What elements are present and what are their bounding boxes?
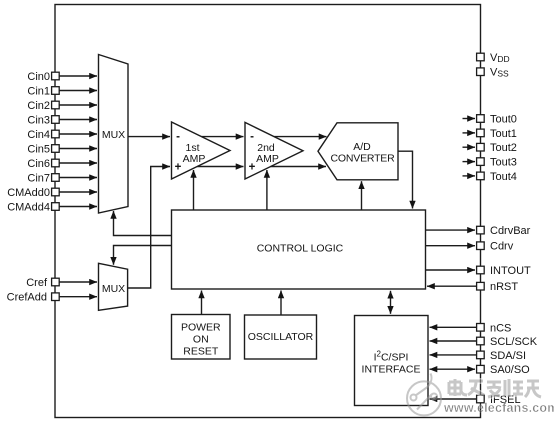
svg-text:+: + bbox=[249, 162, 256, 174]
wire Cin7 to MUX bbox=[60, 177, 98, 179]
watermark elecfans logo and text bbox=[407, 374, 554, 416]
wire control logic select to MUX1 bottom bbox=[114, 211, 172, 236]
svg-text:CrefAdd: CrefAdd bbox=[7, 292, 47, 304]
block I2C/SPI INTERFACE bbox=[355, 316, 429, 406]
pin CMAdd0 bbox=[52, 188, 60, 196]
svg-text:MUX: MUX bbox=[102, 129, 125, 141]
svg-text:Tout3: Tout3 bbox=[490, 157, 517, 169]
pin Tout0 bbox=[477, 115, 485, 123]
pin IFSEL bbox=[477, 395, 485, 403]
pin nCS bbox=[477, 324, 485, 332]
wire A/D output down into control logic bbox=[398, 151, 413, 208]
pin Cdrv bbox=[477, 242, 485, 250]
wire control logic to A/D bottom bbox=[361, 181, 363, 210]
wire control logic to interface bidirectional bbox=[390, 291, 392, 314]
wire control logic gain to 2nd AMP bbox=[266, 170, 268, 210]
pin Tout1 bbox=[477, 129, 485, 137]
wire Cref to MUX2 bbox=[60, 281, 98, 283]
svg-text:Tout2: Tout2 bbox=[490, 142, 517, 154]
wire Cin6 to MUX bbox=[60, 162, 98, 164]
svg-text:Cin7: Cin7 bbox=[27, 173, 50, 185]
svg-text:-: - bbox=[250, 131, 254, 143]
svg-text:AMP: AMP bbox=[183, 153, 206, 165]
pin Tout2 bbox=[477, 143, 485, 151]
svg-text:Cin0: Cin0 bbox=[27, 71, 50, 83]
pin Cin5 bbox=[52, 145, 60, 153]
wire Tout1 stub bbox=[463, 132, 476, 134]
block MUX1 input multiplexer bbox=[99, 55, 129, 214]
svg-text:ON: ON bbox=[193, 334, 209, 346]
watermark logo circle bbox=[407, 374, 441, 416]
svg-text:SA0/SO: SA0/SO bbox=[490, 364, 530, 376]
pin Tout3 bbox=[477, 158, 485, 166]
pin VSS bbox=[477, 68, 485, 76]
wire CrefAdd to MUX2 bbox=[60, 296, 98, 298]
wire Cin4 to MUX bbox=[60, 133, 98, 135]
svg-text:CMAdd0: CMAdd0 bbox=[7, 187, 50, 199]
svg-text:www.elecfans.com: www.elecfans.com bbox=[443, 401, 554, 415]
wire Tout0 stub bbox=[463, 118, 476, 120]
svg-text:nCS: nCS bbox=[490, 322, 511, 334]
wire SCL/SCK pin into interface bbox=[430, 340, 477, 342]
svg-text:I2C/SPI: I2C/SPI bbox=[374, 350, 409, 364]
svg-text:Cin2: Cin2 bbox=[27, 100, 50, 112]
wire Cin1 to MUX bbox=[60, 90, 98, 92]
svg-text:Cin1: Cin1 bbox=[27, 86, 50, 98]
svg-text:+: + bbox=[175, 162, 182, 174]
svg-text:POWER: POWER bbox=[181, 322, 221, 334]
svg-text:Cref: Cref bbox=[26, 277, 48, 289]
svg-text:Tout1: Tout1 bbox=[490, 128, 517, 140]
svg-text:Cin3: Cin3 bbox=[27, 115, 50, 127]
right pin labels bbox=[490, 52, 538, 406]
pin Tout4 bbox=[477, 172, 485, 180]
wire Cin0 to MUX bbox=[60, 75, 98, 77]
svg-text:-: - bbox=[176, 131, 180, 143]
pin SA0/SO bbox=[477, 365, 485, 373]
svg-text:CONVERTER: CONVERTER bbox=[331, 153, 396, 165]
svg-text:Tout0: Tout0 bbox=[490, 114, 517, 126]
pin Cin7 bbox=[52, 174, 60, 182]
block OSCILLATOR bbox=[245, 315, 317, 359]
block MUX2 reference multiplexer bbox=[99, 263, 128, 310]
pin Cin3 bbox=[52, 116, 60, 124]
wire control logic to Cdrv pin bbox=[426, 245, 476, 247]
pin SCL/SCK bbox=[477, 337, 485, 345]
wire IFSEL pin into interface bbox=[430, 398, 477, 400]
wire nCS pin into interface bbox=[430, 326, 477, 328]
watermark chinese text white halo bbox=[449, 379, 541, 397]
wire 1st AMP output to 2nd AMP minus input bbox=[202, 136, 244, 138]
pin Cin6 bbox=[52, 159, 60, 167]
svg-text:CONTROL LOGIC: CONTROL LOGIC bbox=[257, 243, 344, 255]
wire nRST pin into control logic bbox=[427, 285, 477, 287]
block A/D converter bbox=[318, 123, 398, 180]
svg-text:Tout4: Tout4 bbox=[490, 171, 517, 183]
wire Cin2 to MUX bbox=[60, 104, 98, 106]
pin Cin0 bbox=[52, 72, 60, 80]
pin CrefAdd bbox=[52, 293, 60, 301]
wire control logic to CdrvBar pin bbox=[426, 229, 476, 231]
block 2nd AMP op-amp bbox=[245, 122, 303, 179]
block POWER ON RESET bbox=[172, 315, 231, 360]
svg-text:Cin4: Cin4 bbox=[27, 129, 50, 141]
svg-text:nRST: nRST bbox=[490, 281, 518, 293]
wire SA0/SO bidirectional bbox=[430, 368, 476, 370]
pin Cin2 bbox=[52, 101, 60, 109]
pin Cref bbox=[52, 278, 60, 286]
pin Cin4 bbox=[52, 130, 60, 138]
left pin labels bbox=[7, 71, 50, 304]
watermark chinese text 电子发烧友 (approximated strokes) bbox=[449, 379, 541, 397]
wire control logic to INTOUT pin bbox=[426, 269, 476, 271]
svg-text:VDD: VDD bbox=[490, 52, 510, 64]
wire power on reset to control logic bbox=[201, 291, 203, 315]
pin CMAdd4 bbox=[52, 203, 60, 211]
amp input polarity signs bbox=[175, 131, 256, 174]
wire CMAdd0 to MUX bbox=[60, 191, 98, 193]
svg-text:CdrvBar: CdrvBar bbox=[490, 225, 531, 237]
wire 2nd AMP output to A/D upper input bbox=[274, 136, 326, 138]
svg-text:VSS: VSS bbox=[490, 67, 509, 79]
svg-text:INTERFACE: INTERFACE bbox=[362, 364, 421, 376]
chip outer border bbox=[55, 5, 481, 418]
svg-text:AMP: AMP bbox=[256, 153, 279, 165]
pin VDD bbox=[477, 53, 485, 61]
wire oscillator to control logic bbox=[280, 291, 282, 316]
pin CdrvBar bbox=[477, 226, 485, 234]
pin squares bbox=[52, 53, 485, 403]
wire MUX1 output to 1st AMP minus input bbox=[128, 136, 170, 138]
wire Cin5 to MUX bbox=[60, 148, 98, 150]
svg-text:RESET: RESET bbox=[183, 346, 219, 358]
svg-text:A/D: A/D bbox=[353, 141, 371, 153]
svg-text:OSCILLATOR: OSCILLATOR bbox=[248, 331, 314, 343]
wire control logic select to MUX2 top bbox=[114, 246, 172, 265]
block labels bbox=[102, 129, 421, 376]
wire Tout2 stub bbox=[463, 146, 476, 148]
svg-text:Cin5: Cin5 bbox=[27, 144, 50, 156]
pin Cin1 bbox=[52, 87, 60, 95]
wire Tout4 stub bbox=[463, 175, 476, 177]
pin INTOUT bbox=[477, 266, 485, 274]
wire Tout3 stub bbox=[463, 161, 476, 163]
wire 1st AMP output to 2nd AMP plus input bbox=[197, 166, 243, 168]
svg-text:MUX: MUX bbox=[102, 283, 125, 295]
wire control logic gain to 1st AMP bbox=[193, 170, 195, 210]
svg-text:Cdrv: Cdrv bbox=[490, 241, 514, 253]
block CONTROL LOGIC bbox=[172, 210, 426, 289]
svg-text:INTOUT: INTOUT bbox=[490, 265, 531, 277]
wire MUX2 output up to 1st AMP plus input bbox=[128, 167, 170, 289]
pin nRST bbox=[477, 282, 485, 290]
wire SDA/SI pin into interface bbox=[430, 354, 477, 356]
svg-text:SCL/SCK: SCL/SCK bbox=[490, 336, 538, 348]
svg-text:SDA/SI: SDA/SI bbox=[490, 350, 526, 362]
svg-text:CMAdd4: CMAdd4 bbox=[7, 202, 50, 214]
wire Cin3 to MUX bbox=[60, 119, 98, 121]
wire 2nd AMP output to A/D lower input bbox=[271, 166, 326, 168]
pin SDA/SI bbox=[477, 351, 485, 359]
svg-text:Cin6: Cin6 bbox=[27, 158, 50, 170]
block 1st AMP op-amp bbox=[172, 122, 231, 179]
wire CMAdd4 to MUX bbox=[60, 206, 98, 208]
